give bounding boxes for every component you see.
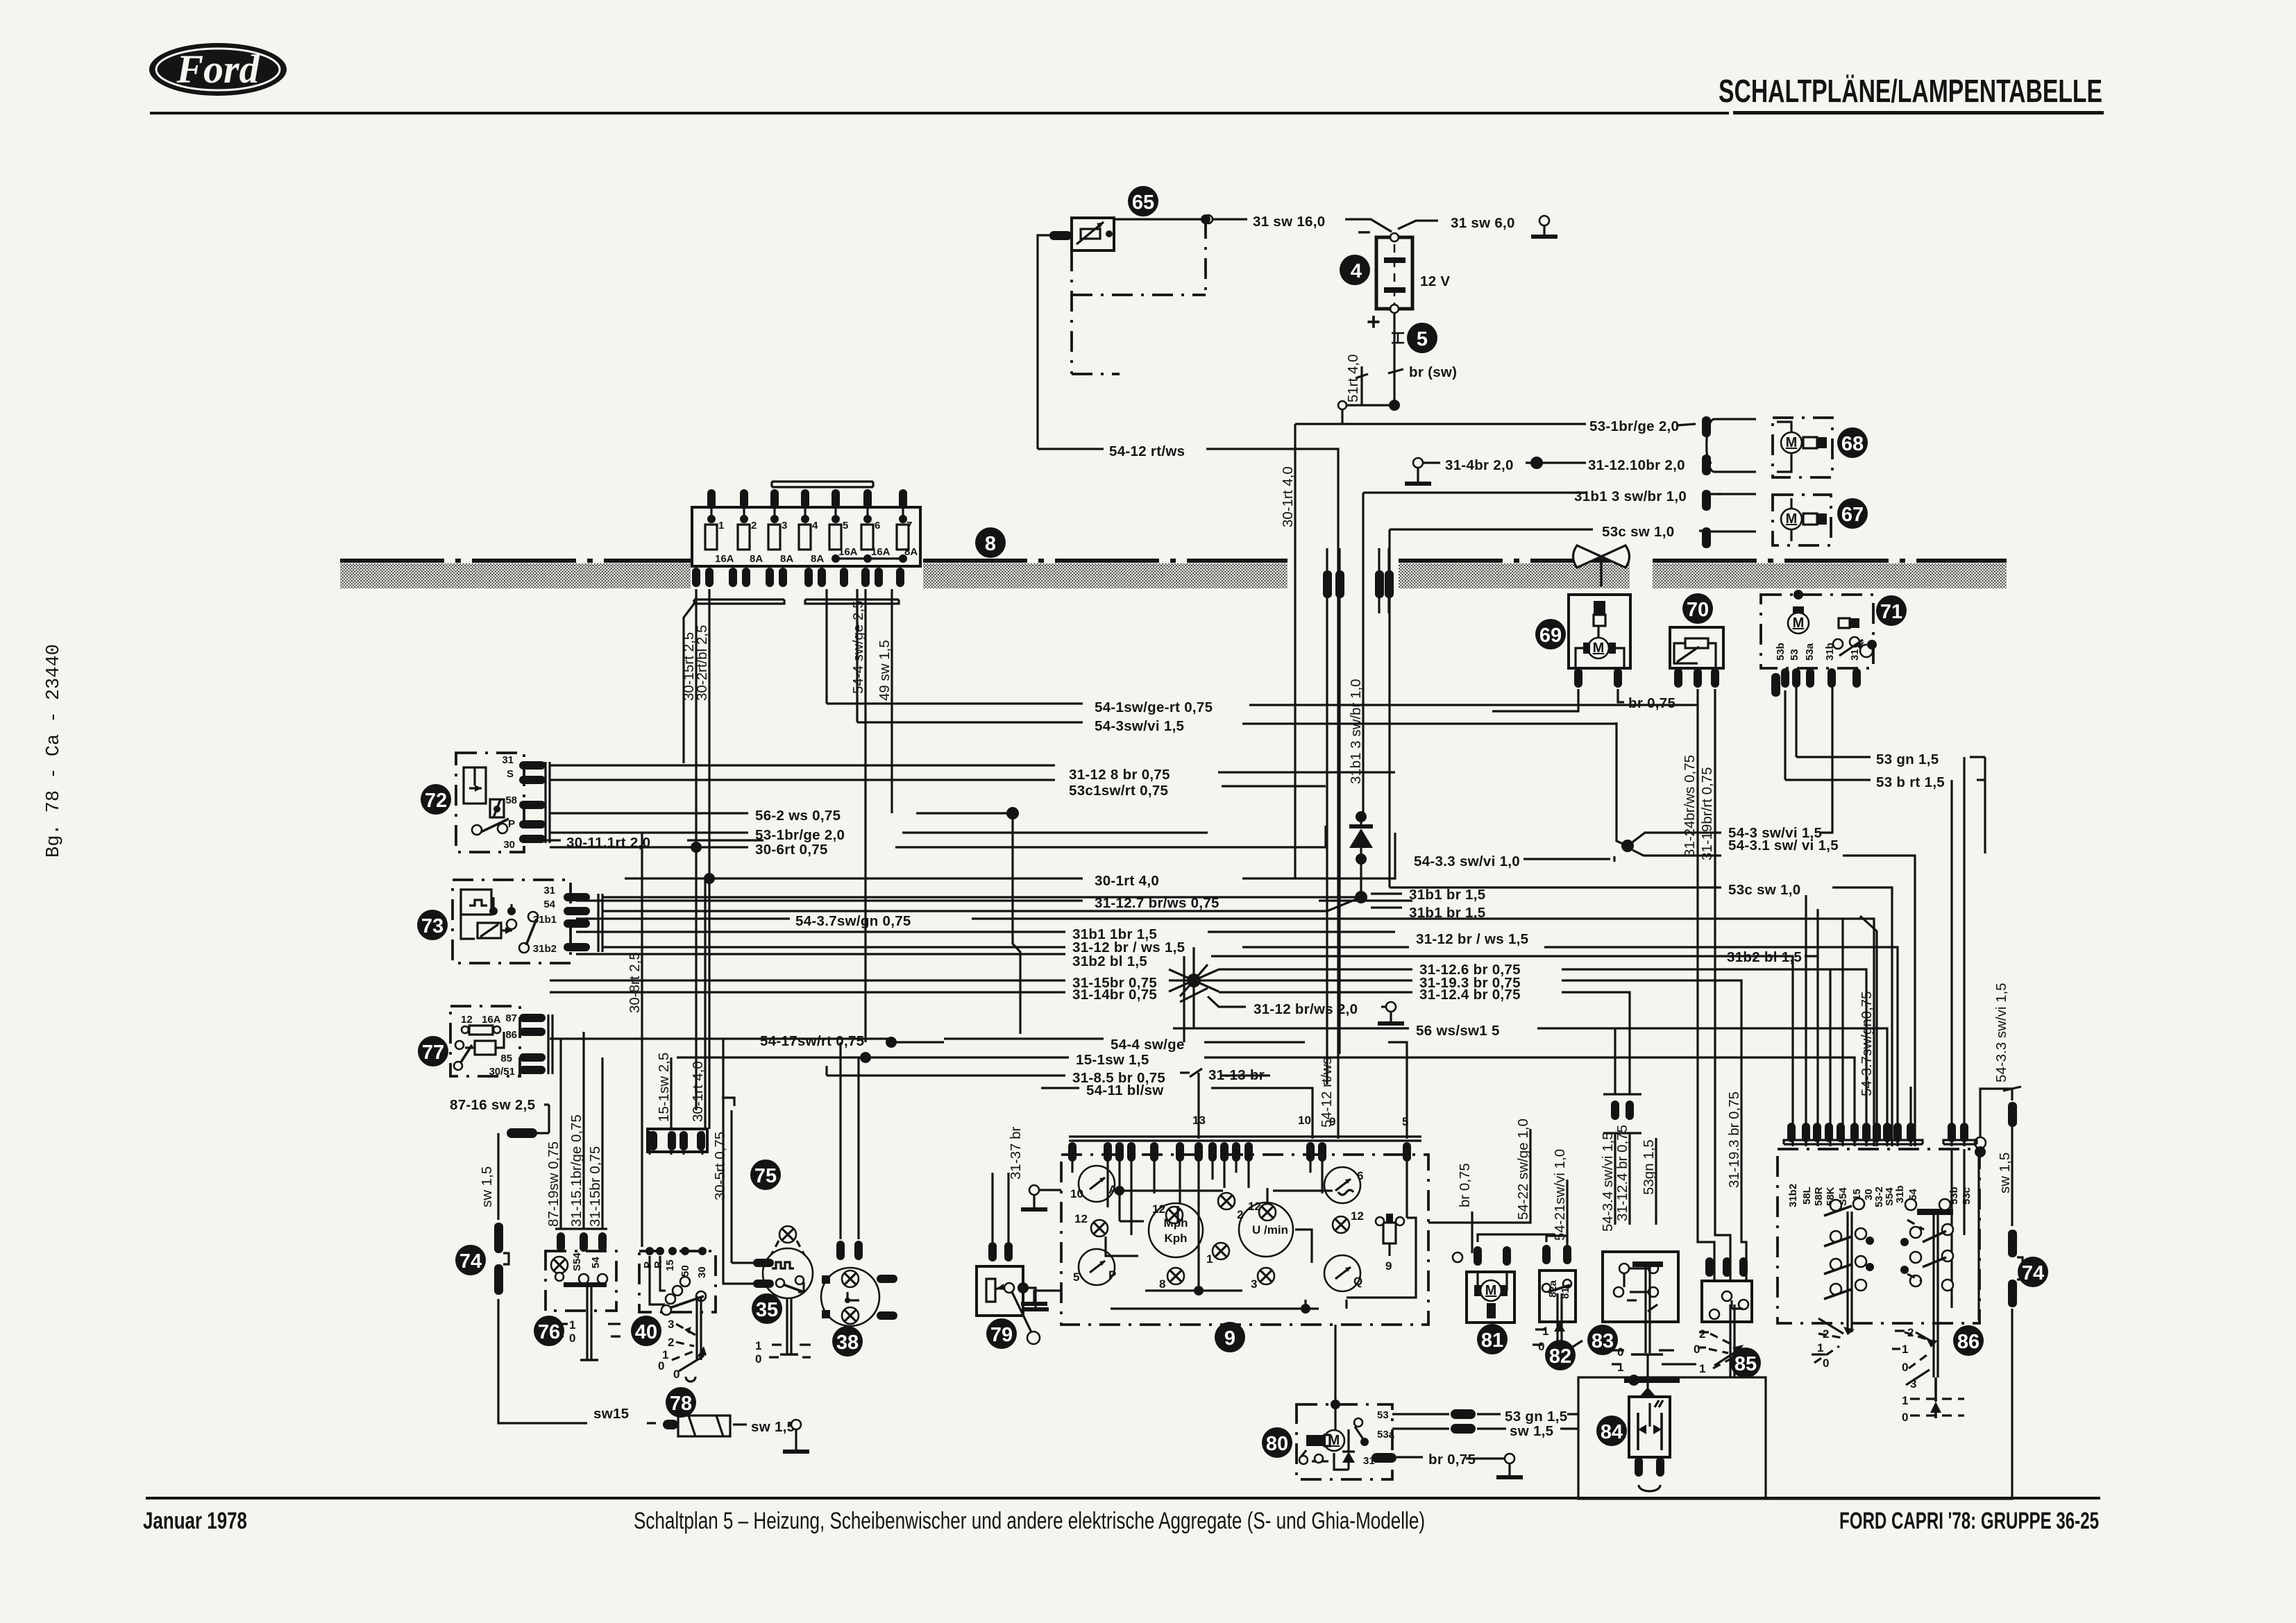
svg-text:9: 9 bbox=[1224, 1327, 1235, 1350]
svg-text:31b2 bl 1,5: 31b2 bl 1,5 bbox=[1072, 953, 1147, 969]
svg-text:70: 70 bbox=[1687, 599, 1709, 621]
svg-text:51rt 4,0: 51rt 4,0 bbox=[1345, 354, 1361, 402]
svg-text:31b1: 31b1 bbox=[533, 914, 557, 926]
svg-text:54: 54 bbox=[543, 899, 555, 910]
svg-text:8A: 8A bbox=[904, 546, 918, 558]
svg-text:72: 72 bbox=[425, 790, 447, 812]
svg-text:31-15.1br/ge 0,75: 31-15.1br/ge 0,75 bbox=[568, 1114, 584, 1227]
svg-text:53-1br/ge 2,0: 53-1br/ge 2,0 bbox=[755, 827, 845, 843]
svg-text:54-17sw/rt 0,75: 54-17sw/rt 0,75 bbox=[760, 1033, 864, 1049]
svg-text:1: 1 bbox=[1699, 1362, 1705, 1375]
svg-text:31-19br/rt 0,75: 31-19br/rt 0,75 bbox=[1699, 767, 1715, 860]
svg-text:31-12.4 br 0,75: 31-12.4 br 0,75 bbox=[1419, 987, 1521, 1003]
svg-text:31-12 br / ws 1,5: 31-12 br / ws 1,5 bbox=[1416, 931, 1528, 947]
svg-text:31: 31 bbox=[543, 885, 555, 897]
svg-text:54-3.4 sw/vi 1,5: 54-3.4 sw/vi 1,5 bbox=[1600, 1132, 1616, 1232]
svg-text:31b2: 31b2 bbox=[1787, 1184, 1799, 1207]
svg-text:12: 12 bbox=[1074, 1212, 1088, 1225]
svg-text:31-24br/ws 0,75: 31-24br/ws 0,75 bbox=[1682, 755, 1698, 857]
svg-text:30: 30 bbox=[696, 1266, 708, 1278]
svg-text:12: 12 bbox=[461, 1014, 473, 1026]
svg-text:0: 0 bbox=[1902, 1361, 1908, 1374]
svg-text:1: 1 bbox=[569, 1318, 575, 1332]
svg-text:5: 5 bbox=[1402, 1115, 1408, 1128]
svg-text:4: 4 bbox=[812, 520, 818, 532]
svg-text:1: 1 bbox=[1617, 1361, 1623, 1374]
svg-text:53 gn 1,5: 53 gn 1,5 bbox=[1505, 1409, 1567, 1425]
svg-text:3: 3 bbox=[668, 1318, 674, 1331]
svg-text:30-5rt 0,75: 30-5rt 0,75 bbox=[712, 1132, 728, 1200]
svg-text:br 0,75: br 0,75 bbox=[1628, 695, 1675, 711]
svg-text:31-12 br/ws 2,0: 31-12 br/ws 2,0 bbox=[1253, 1001, 1358, 1017]
svg-text:br 0,75: br 0,75 bbox=[1457, 1163, 1473, 1207]
svg-text:P: P bbox=[508, 818, 515, 830]
svg-text:30-1rt 4,0: 30-1rt 4,0 bbox=[1280, 466, 1296, 527]
svg-text:0: 0 bbox=[673, 1368, 679, 1381]
svg-text:P: P bbox=[1108, 1268, 1116, 1282]
svg-text:31b: 31b bbox=[1824, 643, 1836, 661]
svg-text:6: 6 bbox=[1357, 1169, 1363, 1182]
svg-text:30/51: 30/51 bbox=[489, 1066, 515, 1078]
svg-text:31-12.10br 2,0: 31-12.10br 2,0 bbox=[1588, 457, 1685, 473]
svg-text:9: 9 bbox=[1385, 1259, 1392, 1273]
svg-text:2: 2 bbox=[1237, 1208, 1243, 1221]
svg-text:15-1sw 1,5: 15-1sw 1,5 bbox=[1076, 1052, 1149, 1068]
svg-text:58L: 58L bbox=[1801, 1187, 1813, 1205]
svg-text:31-15br 0,75: 31-15br 0,75 bbox=[587, 1146, 603, 1227]
svg-text:53b: 53b bbox=[1775, 643, 1787, 661]
svg-text:10: 10 bbox=[1298, 1114, 1311, 1127]
svg-text:31-13 br: 31-13 br bbox=[1208, 1067, 1265, 1083]
svg-text:69: 69 bbox=[1539, 624, 1562, 647]
svg-text:0: 0 bbox=[658, 1359, 664, 1373]
svg-text:30: 30 bbox=[503, 839, 515, 851]
svg-text:8: 8 bbox=[985, 533, 996, 555]
svg-text:31-12.4 br 0,75: 31-12.4 br 0,75 bbox=[1614, 1125, 1630, 1221]
svg-text:53a: 53a bbox=[1377, 1429, 1395, 1441]
svg-text:1: 1 bbox=[1542, 1325, 1548, 1338]
svg-text:16A: 16A bbox=[838, 546, 858, 558]
svg-text:53-1br/ge 2,0: 53-1br/ge 2,0 bbox=[1589, 418, 1679, 434]
svg-text:9: 9 bbox=[1329, 1115, 1335, 1128]
svg-text:56 ws/sw1 5: 56 ws/sw1 5 bbox=[1416, 1023, 1500, 1039]
svg-text:S54: S54 bbox=[571, 1252, 583, 1271]
svg-text:54-12 rt/ws: 54-12 rt/ws bbox=[1109, 443, 1185, 459]
svg-text:71: 71 bbox=[1880, 601, 1902, 623]
svg-text:12: 12 bbox=[1351, 1209, 1364, 1223]
svg-text:82: 82 bbox=[1549, 1345, 1571, 1368]
svg-text:0: 0 bbox=[1617, 1345, 1623, 1359]
svg-text:86: 86 bbox=[1957, 1331, 1980, 1353]
svg-text:85: 85 bbox=[1734, 1353, 1757, 1375]
svg-text:15: 15 bbox=[664, 1259, 676, 1271]
svg-text:87: 87 bbox=[505, 1012, 517, 1024]
svg-text:2: 2 bbox=[1699, 1327, 1705, 1341]
svg-text:31b1 3 sw/br 1,0: 31b1 3 sw/br 1,0 bbox=[1348, 679, 1364, 784]
svg-text:31-19.3 br 0,75: 31-19.3 br 0,75 bbox=[1726, 1091, 1742, 1188]
svg-text:30-6rt 0,75: 30-6rt 0,75 bbox=[755, 842, 828, 858]
svg-text:8A: 8A bbox=[750, 553, 763, 565]
svg-text:31b1 br 1,5: 31b1 br 1,5 bbox=[1409, 887, 1485, 903]
svg-text:sw 1,5: sw 1,5 bbox=[479, 1166, 495, 1207]
svg-text:31-37 br: 31-37 br bbox=[1008, 1126, 1024, 1180]
svg-text:sw 1,5: sw 1,5 bbox=[1510, 1423, 1553, 1439]
svg-text:50: 50 bbox=[679, 1265, 691, 1277]
svg-text:58: 58 bbox=[505, 794, 517, 806]
svg-text:54-3.1 sw/ vi 1,5: 54-3.1 sw/ vi 1,5 bbox=[1728, 838, 1839, 853]
svg-text:31b2: 31b2 bbox=[533, 943, 557, 955]
svg-text:1: 1 bbox=[1902, 1394, 1908, 1407]
svg-text:86: 86 bbox=[505, 1029, 517, 1041]
svg-text:87-19sw 0,75: 87-19sw 0,75 bbox=[546, 1141, 562, 1227]
svg-text:31b1 3 sw/br 1,0: 31b1 3 sw/br 1,0 bbox=[1574, 488, 1687, 504]
svg-text:0: 0 bbox=[755, 1352, 761, 1366]
svg-text:53 gn 1,5: 53 gn 1,5 bbox=[1876, 751, 1939, 767]
svg-text:8A: 8A bbox=[811, 553, 824, 565]
svg-text:Kph: Kph bbox=[1164, 1232, 1187, 1245]
svg-text:8: 8 bbox=[1159, 1277, 1165, 1291]
svg-text:+: + bbox=[1367, 309, 1381, 335]
svg-text:6: 6 bbox=[875, 520, 880, 532]
svg-text:7: 7 bbox=[906, 520, 912, 532]
svg-text:53: 53 bbox=[1377, 1409, 1389, 1421]
svg-text:2: 2 bbox=[751, 520, 757, 532]
svg-text:Schaltplan 5 – Heizung, Scheib: Schaltplan 5 – Heizung, Scheibenwischer … bbox=[634, 1508, 1425, 1534]
svg-text:53c: 53c bbox=[1961, 1187, 1973, 1205]
svg-text:1: 1 bbox=[1206, 1252, 1213, 1266]
svg-text:3: 3 bbox=[1910, 1377, 1916, 1391]
svg-text:3: 3 bbox=[782, 520, 787, 532]
svg-text:49 sw 1,5: 49 sw 1,5 bbox=[877, 640, 893, 701]
svg-text:53: 53 bbox=[1789, 649, 1800, 661]
svg-text:16A: 16A bbox=[715, 553, 734, 565]
svg-text:53a: 53a bbox=[1804, 643, 1816, 661]
svg-text:84: 84 bbox=[1601, 1421, 1623, 1443]
svg-text:80: 80 bbox=[1266, 1433, 1288, 1455]
svg-text:31 sw 6,0: 31 sw 6,0 bbox=[1451, 215, 1515, 231]
svg-text:87-16 sw 2,5: 87-16 sw 2,5 bbox=[450, 1097, 535, 1113]
svg-text:54-3.7sw/gn 0,75: 54-3.7sw/gn 0,75 bbox=[795, 913, 911, 929]
svg-text:54-1sw/ge-rt 0,75: 54-1sw/ge-rt 0,75 bbox=[1095, 699, 1213, 715]
svg-text:1: 1 bbox=[718, 520, 724, 532]
svg-text:78: 78 bbox=[670, 1393, 692, 1415]
svg-text:10: 10 bbox=[1070, 1187, 1083, 1200]
svg-text:54-22 sw/ge 1,0: 54-22 sw/ge 1,0 bbox=[1515, 1119, 1531, 1220]
svg-text:sw 1,5: sw 1,5 bbox=[1997, 1153, 2013, 1193]
svg-text:16A: 16A bbox=[871, 546, 890, 558]
svg-text:68: 68 bbox=[1841, 433, 1864, 455]
svg-text:5: 5 bbox=[1073, 1271, 1079, 1284]
svg-text:0: 0 bbox=[569, 1332, 575, 1345]
svg-text:58R: 58R bbox=[1813, 1187, 1825, 1206]
svg-text:30-1rt 4,0: 30-1rt 4,0 bbox=[1095, 873, 1159, 889]
svg-text:76: 76 bbox=[538, 1321, 560, 1343]
svg-text:83: 83 bbox=[1592, 1330, 1614, 1352]
svg-text:4: 4 bbox=[1351, 260, 1362, 282]
svg-text:FORD CAPRI '78: GRUPPE 36-25: FORD CAPRI '78: GRUPPE 36-25 bbox=[1839, 1508, 2099, 1534]
svg-text:12: 12 bbox=[1152, 1203, 1165, 1216]
svg-text:31 sw 16,0: 31 sw 16,0 bbox=[1253, 214, 1325, 230]
svg-text:12 V: 12 V bbox=[1420, 273, 1450, 289]
svg-text:31b: 31b bbox=[1894, 1185, 1906, 1203]
svg-text:0: 0 bbox=[1823, 1357, 1829, 1370]
svg-text:35: 35 bbox=[756, 1299, 778, 1321]
svg-text:38: 38 bbox=[836, 1332, 859, 1354]
svg-text:SCHALTPLÄNE/LAMPENTABELLE: SCHALTPLÄNE/LAMPENTABELLE bbox=[1719, 73, 2102, 109]
svg-text:75: 75 bbox=[754, 1165, 777, 1187]
svg-text:30-1rt 4,0: 30-1rt 4,0 bbox=[690, 1061, 706, 1122]
svg-text:5: 5 bbox=[843, 520, 848, 532]
svg-text:12: 12 bbox=[1248, 1200, 1261, 1213]
svg-text:54-11 bl/sw: 54-11 bl/sw bbox=[1086, 1082, 1164, 1098]
svg-text:2: 2 bbox=[1907, 1326, 1914, 1339]
svg-text:54-21sw/vi 1,0: 54-21sw/vi 1,0 bbox=[1552, 1149, 1568, 1241]
svg-text:54-4 sw/ge: 54-4 sw/ge bbox=[1111, 1037, 1185, 1053]
svg-text:1: 1 bbox=[1817, 1341, 1823, 1354]
svg-text:13: 13 bbox=[1192, 1114, 1206, 1127]
svg-text:31-4br 2,0: 31-4br 2,0 bbox=[1445, 457, 1514, 473]
svg-text:2: 2 bbox=[668, 1336, 674, 1349]
svg-text:67: 67 bbox=[1841, 504, 1864, 526]
svg-text:U /min: U /min bbox=[1252, 1223, 1288, 1237]
svg-text:0: 0 bbox=[1902, 1411, 1908, 1424]
svg-text:8A: 8A bbox=[780, 553, 793, 565]
svg-text:54-3.3 sw/vi 1,5: 54-3.3 sw/vi 1,5 bbox=[1993, 983, 2009, 1082]
svg-text:Bg. 78 - Ca - 23440: Bg. 78 - Ca - 23440 bbox=[44, 644, 65, 858]
svg-text:1: 1 bbox=[755, 1339, 761, 1352]
svg-text:Ford: Ford bbox=[176, 46, 260, 92]
svg-text:sw 1,5: sw 1,5 bbox=[751, 1419, 795, 1435]
svg-text:2: 2 bbox=[1823, 1327, 1829, 1341]
svg-text:65: 65 bbox=[1132, 192, 1154, 214]
svg-text:77: 77 bbox=[422, 1042, 444, 1064]
svg-text:15-1sw 2,5: 15-1sw 2,5 bbox=[656, 1053, 672, 1122]
svg-text:53c1sw/rt 0,75: 53c1sw/rt 0,75 bbox=[1069, 783, 1168, 799]
svg-text:53c sw 1,0: 53c sw 1,0 bbox=[1728, 882, 1800, 898]
svg-text:54-3sw/vi 1,5: 54-3sw/vi 1,5 bbox=[1095, 718, 1184, 734]
svg-text:30-2rt/bl 2,5: 30-2rt/bl 2,5 bbox=[694, 625, 710, 701]
svg-text:31: 31 bbox=[502, 754, 514, 766]
svg-text:31: 31 bbox=[1849, 649, 1861, 661]
svg-text:1: 1 bbox=[1902, 1343, 1908, 1356]
svg-text:30-8rt 2,5: 30-8rt 2,5 bbox=[627, 952, 643, 1013]
svg-text:73: 73 bbox=[421, 915, 444, 937]
svg-text:54: 54 bbox=[590, 1257, 602, 1268]
svg-text:54-3.3 sw/vi 1,0: 54-3.3 sw/vi 1,0 bbox=[1414, 853, 1520, 869]
svg-text:31-14br 0,75: 31-14br 0,75 bbox=[1072, 987, 1157, 1003]
svg-text:74: 74 bbox=[2022, 1262, 2044, 1284]
svg-text:79: 79 bbox=[990, 1324, 1013, 1346]
svg-text:br 0,75: br 0,75 bbox=[1428, 1452, 1476, 1468]
svg-text:–: – bbox=[1358, 218, 1371, 244]
svg-text:5: 5 bbox=[1417, 328, 1428, 350]
svg-text:Januar 1978: Januar 1978 bbox=[143, 1508, 247, 1534]
svg-text:31-12 8 br 0,75: 31-12 8 br 0,75 bbox=[1069, 767, 1170, 783]
svg-text:S: S bbox=[507, 768, 514, 780]
svg-text:74: 74 bbox=[459, 1250, 482, 1273]
svg-text:3: 3 bbox=[1251, 1277, 1257, 1291]
svg-text:br (sw): br (sw) bbox=[1409, 364, 1457, 380]
svg-text:Q: Q bbox=[1353, 1275, 1362, 1288]
svg-text:53 b rt 1,5: 53 b rt 1,5 bbox=[1876, 774, 1945, 790]
svg-text:53gn 1,5: 53gn 1,5 bbox=[1641, 1139, 1657, 1195]
svg-text:0: 0 bbox=[1694, 1343, 1700, 1356]
svg-text:54-4 sw/ge 2,5: 54-4 sw/ge 2,5 bbox=[850, 601, 866, 694]
svg-text:sw15: sw15 bbox=[593, 1406, 629, 1422]
svg-text:53c sw 1,0: 53c sw 1,0 bbox=[1602, 524, 1674, 540]
svg-text:16A: 16A bbox=[482, 1014, 501, 1026]
svg-text:R: R bbox=[652, 1261, 664, 1268]
svg-text:81: 81 bbox=[1481, 1329, 1503, 1352]
svg-text:56-2 ws 0,75: 56-2 ws 0,75 bbox=[755, 808, 841, 824]
svg-text:85: 85 bbox=[500, 1053, 512, 1064]
svg-text:0: 0 bbox=[1538, 1340, 1544, 1353]
svg-text:40: 40 bbox=[635, 1321, 657, 1343]
